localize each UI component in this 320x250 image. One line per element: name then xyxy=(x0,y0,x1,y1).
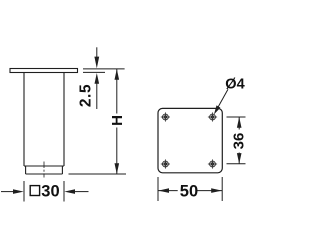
top view: hole bottom-left xyxy=(161,159,170,168)
svg-text:30: 30 xyxy=(41,183,59,201)
dim 50: right arrow (points right) xyxy=(196,188,223,193)
dim 30: left arrow (points right) xyxy=(1,189,24,194)
dim H: dimension line xyxy=(116,69,118,174)
dim 30: square section symbol xyxy=(30,186,39,196)
dim 36: bottom extension line xyxy=(227,163,246,165)
dim Ø4: leader arrow xyxy=(214,105,221,114)
dim H: bottom arrow (points down) xyxy=(115,163,120,174)
dim 30: right extension line xyxy=(63,181,65,202)
dim 36: bottom arrow (points down) xyxy=(237,153,242,164)
top view: hole top-left xyxy=(161,112,170,121)
top view: plate outline xyxy=(158,108,222,172)
svg-text:H: H xyxy=(109,115,126,126)
dim 36: dimension line xyxy=(238,117,240,164)
side view: adjustable foot insert xyxy=(26,166,63,174)
dim 2.5: lower arrow (points up) xyxy=(95,73,100,109)
dim H: bottom extension line xyxy=(69,173,127,175)
dim 50: right extension line xyxy=(221,177,223,201)
dim 50: left extension line xyxy=(157,177,159,201)
side view: foot center line xyxy=(43,162,45,178)
dim 2.5: top extension line xyxy=(83,68,125,70)
side view: leg column xyxy=(24,73,64,167)
svg-text:50: 50 xyxy=(180,183,198,201)
svg-text:36: 36 xyxy=(230,133,247,150)
dim 50: left arrow (points left) xyxy=(158,188,178,193)
top view: hole top-right xyxy=(208,112,217,121)
side view: mounting plate xyxy=(10,69,78,73)
svg-text:2.5: 2.5 xyxy=(78,84,95,107)
dim H: top arrow (points up) xyxy=(115,69,120,80)
dim 2.5: bottom extension line xyxy=(83,71,105,73)
dim 36: top extension line xyxy=(227,116,246,118)
dim 30: left extension line xyxy=(23,181,25,202)
dim Ø4: leader line xyxy=(217,89,228,109)
top view: hole bottom-right xyxy=(208,159,217,168)
svg-text:Ø4: Ø4 xyxy=(225,77,244,93)
dim 30: right arrow (points left) xyxy=(64,189,88,194)
dim 2.5: upper arrow (points down) xyxy=(94,47,99,68)
dim 36: top arrow (points up) xyxy=(237,117,242,128)
